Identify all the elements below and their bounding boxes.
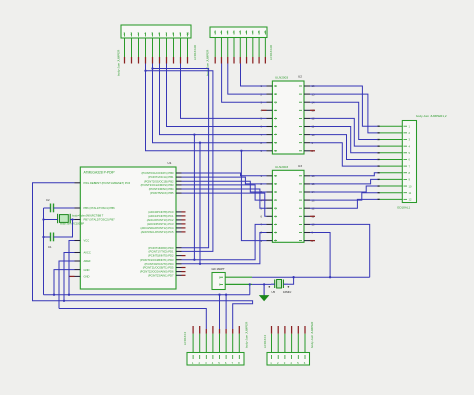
U1 pin RESET	[75, 182, 81, 184]
svg-text:U2: U2	[298, 75, 302, 79]
svg-text:VCC: VCC	[84, 239, 90, 243]
U1 pin PD4	[176, 263, 182, 265]
svg-text:ATMEGA328 P-PDIP: ATMEGA328 P-PDIP	[84, 171, 116, 175]
J5 pin 2 leg	[277, 334, 279, 353]
J5 pin 3 leg	[284, 334, 286, 353]
svg-text:(PCINT22/OC0A/AIN0) PD6: (PCINT22/OC0A/AIN0) PD6	[140, 270, 174, 274]
J1 pin 7 mark	[166, 33, 168, 37]
J4 pin 3 leg	[205, 334, 207, 353]
U3 left pin 2 stub	[267, 183, 273, 185]
J3 pin 10 leg	[379, 185, 403, 187]
J2 pin 3 mark	[227, 31, 229, 35]
wire U3 pin10 to crystal rail	[310, 224, 370, 277]
J5 pin 3 mark	[284, 355, 286, 359]
U3 right pin 10 stub	[304, 175, 310, 177]
wire RESET bus B	[33, 183, 253, 329]
svg-text:PWL DEBRST (PCINT14/RESET) PC6: PWL DEBRST (PCINT14/RESET) PC6	[84, 181, 131, 185]
J3 pin 3 leg	[379, 139, 403, 141]
junction node	[218, 294, 220, 296]
svg-text:(PCINT3/OC2A/MOSI) PB3: (PCINT3/OC2A/MOSI) PB3	[141, 183, 174, 187]
wire J1 pin5 to U2 pin8	[153, 64, 267, 143]
J3 pin 5 leg	[379, 152, 403, 154]
J2 pin 4 leg	[233, 38, 235, 58]
microcontroller U1 ATMEGA328P-PDIP	[70, 161, 186, 289]
U3 left pin 3 stub	[267, 191, 273, 193]
J2 pin 7 leg	[252, 38, 254, 58]
U2 right pin 18 stub	[304, 150, 310, 152]
svg-text:GND: GND	[84, 268, 90, 272]
U1 pin PB3	[176, 184, 182, 186]
J2 pin 3 leg	[227, 38, 229, 58]
junction node	[329, 276, 331, 278]
junction node	[68, 294, 70, 296]
J2 pin 9 mark	[264, 31, 266, 35]
J4 pin 8 leg	[238, 334, 240, 353]
U1 pin AREF	[75, 260, 81, 262]
J2 pin 1 leg	[214, 38, 216, 58]
U1 pin PB1	[176, 176, 182, 178]
crystal U5 16MHz	[269, 280, 292, 295]
junction node	[225, 294, 227, 296]
J3 pin 9 mark	[404, 178, 408, 180]
J5 pin 1 mark	[271, 355, 273, 359]
U3 right pin 13 stub	[304, 199, 310, 201]
U2 right pin 15 stub	[304, 126, 310, 128]
wire bus A drop to J4 pin5	[219, 295, 221, 329]
U1 pin PD5	[176, 267, 182, 269]
wire U3 pin13 to J3 pin11	[310, 193, 377, 200]
svg-text:LCD16X2D: LCD16X2D	[269, 44, 273, 60]
U2 left pin 4 unconnected end	[262, 109, 267, 111]
wire U1 PB3 to U3 pin4	[182, 185, 267, 200]
svg-text:(ADC4/SDA/PCINT12) PC4: (ADC4/SDA/PCINT12) PC4	[140, 226, 174, 230]
wire J1 pin5 branch to U1 PD0	[153, 69, 209, 248]
J2 pin 5 leg	[239, 38, 241, 58]
junction node	[292, 276, 294, 278]
svg-text:(ADC0/PCINT8) PC0: (ADC0/PCINT8) PC0	[148, 210, 174, 214]
J1 pin 5 leg	[152, 38, 154, 57]
wire J1 pin4 to U2 pin9	[146, 64, 267, 151]
wire bus A riser to X1 net	[249, 284, 251, 294]
wire U1 PB5 to U3 pin6	[182, 193, 267, 216]
U3 right pin 14 stub	[304, 207, 310, 209]
junction node	[263, 283, 265, 285]
J3 pin 7 leg	[379, 165, 403, 167]
J1 pin 2 leg	[131, 38, 133, 57]
J3 pin 8 mark	[404, 172, 408, 174]
J1 pin 6 leg	[159, 38, 161, 57]
svg-text:PB6 (XTAL1/TOSC1) PB6: PB6 (XTAL1/TOSC1) PB6	[84, 206, 116, 210]
svg-text:(ADC2/PCINT10) PC2: (ADC2/PCINT10) PC2	[147, 218, 174, 222]
U3 left pin 7 stub	[267, 223, 273, 225]
svg-text:LCD16X4: LCD16X4	[263, 335, 267, 348]
darlington array U2 ULN2003 (upper)	[261, 75, 315, 155]
svg-text:U3: U3	[298, 164, 302, 168]
U3 right pin 12 stub	[304, 191, 310, 193]
junction node	[63, 300, 65, 302]
J1 pin 4 mark	[145, 33, 147, 37]
svg-text:(PCINT17/TXD) PD1: (PCINT17/TXD) PD1	[149, 250, 174, 254]
wire rail drop to crystal right lead	[288, 277, 294, 284]
wire bus A drop to J4 pin6	[225, 295, 227, 329]
U3 left pin 4 stub	[267, 199, 273, 201]
J3 pin 8 leg	[379, 172, 403, 174]
J3 pin 6 mark	[404, 158, 408, 160]
U1 pin GND	[75, 269, 81, 271]
J1 pin 8 mark	[173, 33, 175, 37]
J1 pin 1 leg	[124, 38, 126, 57]
J1 pin 10 mark	[187, 33, 189, 37]
svg-text:C1: C1	[48, 245, 52, 249]
U1 pin PD3	[176, 259, 182, 261]
J2 pin 5 mark	[239, 31, 241, 35]
U2 right pin 14 stub	[304, 117, 310, 119]
junction node	[249, 283, 251, 285]
J1 pin 9 mark	[180, 33, 182, 37]
connector J4 LCD16X4 (bottom-left header)	[183, 321, 249, 365]
J3 pin 5 mark	[404, 152, 408, 154]
wire U1 AREF to bus	[59, 261, 75, 309]
wire U1 PB1 to U3 pin2	[182, 177, 267, 184]
U1 pin PC4	[176, 227, 182, 229]
U1 pin PC1	[176, 215, 182, 217]
wire GND bus A	[44, 294, 250, 296]
J3 pin 2 leg	[379, 132, 403, 134]
svg-text:(PCINT2/SS/OC1B) PB2: (PCINT2/SS/OC1B) PB2	[144, 179, 174, 183]
J4 pin 6 leg	[225, 334, 227, 353]
U1 pin XTAL1	[75, 207, 81, 209]
J2 pin 6 mark	[246, 31, 248, 35]
svg-text:6: 6	[261, 215, 263, 219]
wire J2 pin3 to U2 pin2	[228, 64, 267, 95]
U1 pin PD6	[176, 271, 182, 273]
wire U1 PD4 to U3 pin8	[182, 233, 267, 264]
svg-text:LCD16X2D: LCD16X2D	[193, 44, 197, 60]
U2 right pin 11 stub	[304, 93, 310, 95]
J4 pin 4 leg	[212, 334, 214, 353]
junction node	[144, 70, 146, 72]
svg-text:GND: GND	[84, 275, 90, 279]
J5 pin 4 leg	[291, 334, 293, 353]
svg-text:body-Jum JUMPER: body-Jum JUMPER	[117, 49, 121, 76]
svg-text:GD18AL1: GD18AL1	[397, 206, 411, 210]
U1 pin XTAL2	[75, 219, 81, 221]
J3 pin 11 leg	[379, 192, 403, 194]
U3 right pin 11 stub	[304, 183, 310, 185]
wire J1 pin6 to U2 pin7	[160, 64, 267, 135]
U1 pin PC3	[176, 223, 182, 225]
U3 left pin 6 stub	[267, 215, 273, 217]
wire U1 VCC to bus	[69, 241, 75, 295]
J3 pin 2 mark	[404, 132, 408, 134]
svg-text:(PCINT0/CLKO/ICP1) PB0: (PCINT0/CLKO/ICP1) PB0	[142, 171, 174, 175]
wire U3 pin14 to J3 pin10	[310, 186, 377, 192]
J1 pin 7 leg	[166, 38, 168, 57]
J1 pin 6 mark	[159, 33, 161, 37]
U1 pin PB0	[176, 172, 182, 174]
J5 pin 5 leg	[297, 334, 299, 353]
svg-text:AREF: AREF	[84, 259, 92, 263]
U3 left pin 8 stub	[267, 232, 273, 234]
svg-text:body-Jum JUMPER: body-Jum JUMPER	[245, 321, 249, 348]
wire J2 pin5 to U2 pin1	[241, 64, 267, 87]
svg-text:(PCINT21/OC0B/T1) PD5: (PCINT21/OC0B/T1) PD5	[143, 266, 174, 270]
svg-text:(ADC5/SCL/PCINT13) PC5: (ADC5/SCL/PCINT13) PC5	[141, 230, 174, 234]
wire U2 pin9 to U3 pin9	[241, 151, 266, 241]
svg-text:body-Jum JUMPER1,2: body-Jum JUMPER1,2	[416, 114, 447, 118]
U2 right pin 12 stub	[304, 101, 310, 103]
junction node	[71, 218, 73, 220]
U3 left pin 9 stub	[267, 240, 273, 242]
J3 pin 3 mark	[404, 139, 408, 141]
wire XTAL2 net	[70, 219, 74, 221]
connector X1 crystal header (2-pin box)	[212, 267, 253, 290]
svg-text:PB7 (XTAL2/TOSC2) PB7: PB7 (XTAL2/TOSC2) PB7	[84, 218, 116, 222]
J3 pin 4 mark	[404, 145, 408, 147]
J2 pin 2 mark	[220, 31, 222, 35]
J4 pin 6 mark	[225, 355, 227, 359]
J4 pin 4 mark	[212, 355, 214, 359]
U2 right pin 13 stub	[304, 109, 310, 111]
wire U2 pin10 to J3 pin6	[310, 135, 377, 160]
U1 pin PD2	[176, 255, 182, 257]
wire C1 net	[44, 236, 51, 238]
J1 pin 3 leg	[138, 38, 140, 57]
X1 pin 1	[225, 276, 252, 278]
wire X1 pin2 to crystal left lead	[252, 283, 271, 285]
U2 left pin 9 stub	[267, 150, 273, 152]
J3 pin 7 mark	[404, 165, 408, 167]
wire J1 pin7 to U2 pin6	[167, 64, 267, 127]
crystal X2 (XTAL circuit)	[58, 214, 104, 226]
connector J2 LCD16X2D (top-right header)	[206, 27, 274, 76]
svg-text:(ADC3/PCINT11) PC3: (ADC3/PCINT11) PC3	[147, 222, 174, 226]
darlington array U3 ULN2003 (lower)	[261, 164, 315, 243]
U1 pin GND	[75, 275, 81, 277]
svg-text:(PCINT23/AIN1) PD7: (PCINT23/AIN1) PD7	[148, 273, 174, 277]
U3 left pin 4 unconnected end	[262, 199, 267, 201]
U2 left pin 7 stub	[267, 134, 273, 136]
U3 left pin 5 stub	[267, 207, 273, 209]
J4 pin 8 mark	[238, 355, 240, 359]
svg-text:body=PcbmJMX(RCT/B8 T: body=PcbmJMX(RCT/B8 T	[72, 214, 104, 218]
svg-text:(PCINT1/OC1A) PB1: (PCINT1/OC1A) PB1	[148, 175, 174, 179]
U1 pin PB4	[176, 188, 182, 190]
J1 pin 10 leg	[187, 38, 189, 57]
J2 pin 6 leg	[246, 38, 248, 58]
U2 left pin 5 stub	[267, 117, 273, 119]
connector J5 LCD16X4 (bottom-right header)	[263, 321, 314, 365]
J4 pin 7 mark	[232, 355, 234, 359]
svg-text:ULN2003: ULN2003	[275, 76, 288, 80]
U2 left pin 6 stub	[267, 126, 273, 128]
U3 right pin 9 unconnected end	[310, 240, 315, 242]
svg-text:ULN2003: ULN2003	[275, 165, 288, 169]
J3 pin 12 leg	[379, 198, 403, 200]
U2 right pin 17 stub	[304, 142, 310, 144]
junction node	[53, 294, 55, 296]
U1 pin PC5	[176, 231, 182, 233]
U1 pin PB5	[176, 192, 182, 194]
J4 pin 3 mark	[205, 355, 207, 359]
X1 pin 2	[225, 283, 252, 285]
junction node	[42, 218, 44, 220]
wire X1 pin1 rail over crystal	[252, 276, 370, 278]
U2 right pin 16 stub	[304, 134, 310, 136]
J1 pin 1 mark	[124, 33, 126, 37]
svg-text:AVCC: AVCC	[84, 251, 91, 255]
wire U2 pin9 to J3 pin7	[310, 143, 377, 166]
J5 pin 2 mark	[277, 355, 279, 359]
U3 right pin 15 stub	[304, 215, 310, 217]
J1 pin 8 leg	[173, 38, 175, 57]
svg-text:(PCINT5/SCK) PB5: (PCINT5/SCK) PB5	[150, 191, 174, 195]
U3 right pin 18 stub	[304, 240, 310, 242]
connector J1 LCD16X2D (top-left header)	[117, 25, 198, 76]
J2 pin 7 mark	[252, 31, 254, 35]
J1 pin 3 mark	[138, 33, 140, 37]
U2 left pin 3 stub	[267, 101, 273, 103]
J5 pin 6 mark	[304, 355, 306, 359]
wire U1 PB4 to U3 pin5	[182, 189, 267, 208]
wire J1 pin9 to U2 pin5	[181, 64, 267, 119]
wire U3 pin9b to crystal rail	[310, 233, 330, 278]
wire J2 pin2 to U2 pin3	[222, 64, 267, 103]
J4 pin 7 leg	[232, 334, 234, 353]
connector J3 JUMPER1,2 (right header)	[377, 114, 446, 210]
U1 pin PB2	[176, 180, 182, 182]
J4 pin 5 leg	[219, 334, 221, 353]
J3 pin 11 mark	[404, 192, 408, 194]
U3 right pin 16 stub	[304, 223, 310, 225]
wire J1 pin4 branch to U1 PD1	[146, 71, 213, 252]
wire U1 PB2 to U3 pin3	[182, 181, 267, 192]
wire branch LCD net to PD4	[199, 143, 201, 264]
J5 pin 4 mark	[291, 355, 293, 359]
junction node	[193, 133, 195, 135]
wire U2 pin12 to J3 pin4	[310, 118, 377, 146]
wire U2 pin14 to J3 pin3	[310, 102, 377, 139]
J2 pin 8 mark	[258, 31, 260, 35]
J5 pin 1 leg	[271, 334, 273, 353]
wire cap ground leg	[43, 208, 45, 295]
wire U2 pin16 to J3 pin1	[310, 86, 377, 126]
U3 left pin 1 stub	[267, 175, 273, 177]
svg-text:(PCINT4/MISO) PB4: (PCINT4/MISO) PB4	[149, 187, 174, 191]
U2 left pin 1 stub	[267, 85, 273, 87]
J5 pin 6 leg	[304, 334, 306, 353]
wire XTAL1 net	[54, 207, 75, 209]
U2 right pin 4 unconnected end	[310, 109, 315, 111]
U1 pin PD0	[176, 247, 182, 249]
U1 pin VCC	[75, 240, 81, 242]
wire branch LCD net to PD3	[193, 135, 195, 260]
U2 left pin 2 stub	[267, 93, 273, 95]
wire U1 PB0 to U3 pin1	[182, 173, 267, 176]
J4 pin 1 leg	[192, 334, 194, 353]
svg-text:(PCINT18/INT0) PD2: (PCINT18/INT0) PD2	[148, 254, 174, 258]
svg-text:(PCINT19/OC2B/INT1) PD3: (PCINT19/OC2B/INT1) PD3	[140, 258, 174, 262]
J5 pin 5 mark	[297, 355, 299, 359]
J4 pin 2 leg	[199, 334, 201, 353]
J3 pin 12 mark	[404, 198, 408, 200]
svg-text:U5: U5	[272, 290, 276, 294]
U1 pin PD1	[176, 250, 182, 252]
J3 pin 1 mark	[404, 125, 408, 127]
U3 right pin 17 stub	[304, 232, 310, 234]
J3 pin 9 leg	[379, 178, 403, 180]
U2 right pin 10 stub	[304, 85, 310, 87]
wire U1 PD3 to U3 pin7	[182, 224, 267, 259]
J2 pin 9 leg	[264, 38, 266, 58]
J3 pin 10 mark	[404, 185, 408, 187]
wire U1 AVCC to bus	[64, 253, 75, 301]
junction node	[151, 67, 153, 69]
svg-text:C2: C2	[46, 198, 50, 202]
wire U3 pin16 to J3 pin8	[310, 173, 377, 176]
capacitor C1	[48, 233, 54, 250]
svg-text:(PCINT20/XCK/T0) PD4: (PCINT20/XCK/T0) PD4	[145, 262, 174, 266]
U1 pin PD7	[176, 274, 182, 276]
J4 pin 1 mark	[192, 355, 194, 359]
wire U3 pin15 to J3 pin9	[310, 179, 377, 184]
U2 left pin 4 stub	[267, 109, 273, 111]
J1 pin 9 leg	[180, 38, 182, 57]
svg-text:LCD16X4: LCD16X4	[183, 332, 187, 345]
wire U2 pin11 to J3 pin5	[310, 127, 377, 153]
J4 pin 5 mark	[219, 355, 221, 359]
J3 pin 1 leg	[379, 125, 403, 127]
J2 pin 4 mark	[233, 31, 235, 35]
U2 right pin 9 unconnected end	[310, 150, 315, 152]
junction node	[199, 142, 201, 144]
svg-text:U1: U1	[168, 161, 172, 165]
U1 pin PC0	[176, 211, 182, 213]
svg-text:body-Jum JUMPER: body-Jum JUMPER	[310, 321, 314, 348]
J2 pin 2 leg	[220, 38, 222, 58]
wire U2 pin15 to J3 pin2	[310, 94, 377, 133]
svg-text:GD 16bPT: GD 16bPT	[212, 267, 226, 271]
J4 pin 2 mark	[199, 355, 201, 359]
U2 left pin 8 stub	[267, 142, 273, 144]
J2 pin 8 leg	[258, 38, 260, 58]
svg-text:(ADC1/PCINT9) PC1: (ADC1/PCINT9) PC1	[148, 214, 174, 218]
J2 pin 1 mark	[214, 31, 216, 35]
U1 pin AVCC	[75, 252, 81, 254]
capacitor C2	[46, 198, 54, 212]
svg-text:16Mhz: 16Mhz	[283, 290, 292, 294]
wire U1 GND to bus	[54, 270, 75, 295]
svg-text:(PCINT16/RXD) PD0: (PCINT16/RXD) PD0	[148, 246, 174, 250]
J3 pin 4 leg	[379, 145, 403, 147]
U3 right pin 6 unconnected end	[310, 215, 315, 217]
J1 pin 5 mark	[152, 33, 154, 37]
junction node	[240, 150, 242, 152]
J1 pin 2 mark	[131, 33, 133, 37]
J1 pin 4 leg	[145, 38, 147, 57]
ground	[259, 284, 270, 301]
wire bus C to J4 pin3	[59, 309, 206, 330]
U1 pin PC2	[176, 219, 182, 221]
J3 pin 6 leg	[379, 158, 403, 160]
wire U3 pin12 to J3 pin12	[310, 199, 377, 208]
